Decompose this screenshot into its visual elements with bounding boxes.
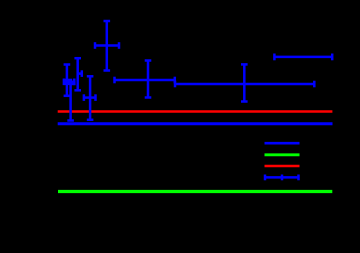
data point D (wide) [175,64,314,101]
legend sample red line [265,165,300,168]
data point P1 (cluster leftmost) [64,65,75,96]
data point A (top) [95,21,119,71]
data point P2 (cluster second) [67,79,74,121]
green limit line [58,190,332,193]
legend sample blue line [265,142,300,145]
blue band line [58,122,333,125]
red theory line [58,110,333,113]
data point P4 (cluster fourth) [84,76,96,120]
legend sample error bar [265,175,299,181]
data point E (top right, x-error only) [274,54,332,61]
legend sample green line [265,153,300,156]
data point P3 (cluster third) [74,58,81,90]
cluster overlap blob [64,79,72,85]
data point B (middle) [115,61,175,98]
